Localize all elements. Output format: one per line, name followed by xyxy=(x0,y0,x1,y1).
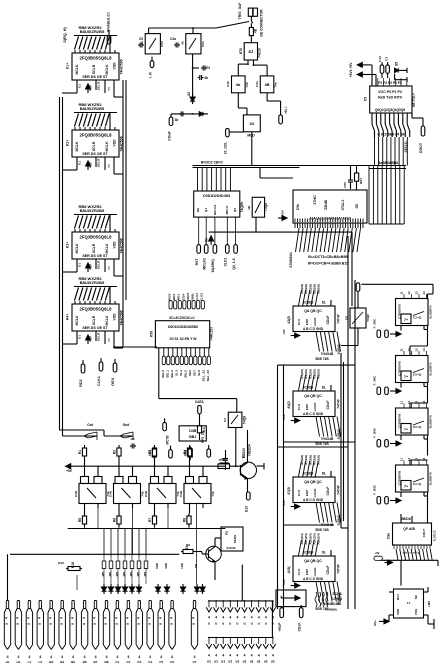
svg-text:C3: C3 xyxy=(385,57,389,61)
svg-text:X2: X2 xyxy=(249,121,255,126)
+5V arrow at counter U18 xyxy=(295,583,300,588)
input fan wires into U4 xyxy=(75,288,79,301)
svg-text:13: 13 xyxy=(415,348,419,352)
svg-text:74b: 74b xyxy=(245,82,249,87)
svg-text:4B1: 4B1 xyxy=(122,571,126,577)
svg-text:u: u xyxy=(208,622,210,626)
svg-text:C5: C5 xyxy=(364,97,368,101)
svg-text:SL8: SL8 xyxy=(197,370,201,376)
wire U8b right to connector xyxy=(266,93,268,101)
svg-text:U1: U1 xyxy=(78,263,82,267)
timer block U22 xyxy=(396,465,429,492)
connector ENABLE xyxy=(107,36,111,45)
svg-text:LOAD: LOAD xyxy=(313,488,317,498)
svg-text:4: 4 xyxy=(208,654,210,658)
+W connector and arrow xyxy=(374,556,383,560)
svg-text:I_R: I_R xyxy=(149,72,153,78)
svg-text:u: u xyxy=(59,623,63,625)
comb J2 tooth 1 xyxy=(208,601,210,608)
svg-text:u: u xyxy=(222,622,224,626)
+5V arrow under U1 xyxy=(86,84,91,89)
Q7 wire under U2 xyxy=(104,157,106,170)
clamp diode D10 xyxy=(196,584,198,587)
U23 bottom wires xyxy=(396,549,398,560)
wires above U29 xyxy=(189,459,191,477)
resistor R17 to Q2 base xyxy=(181,551,183,553)
svg-text:Q6: Q6 xyxy=(233,208,237,212)
wire top of right chain xyxy=(361,283,433,285)
comb J2 tooth 7 xyxy=(251,601,253,608)
svg-text:1DB: 1DB xyxy=(180,563,184,569)
connector pin J1-11 xyxy=(116,601,118,609)
svg-text:SER DS OE ST: SER DS OE ST xyxy=(82,75,108,79)
svg-text:SCLR: SCLR xyxy=(92,141,96,151)
+5V arrow at U24 xyxy=(384,619,389,624)
wire U8a to MLD box xyxy=(237,93,239,108)
svg-text:SCLR: SCLR xyxy=(97,81,101,90)
svg-text:u: u xyxy=(70,623,74,625)
svg-text:u: u xyxy=(192,623,196,625)
base resistor R10 on rail xyxy=(218,464,230,469)
svg-text:CLK: CLK xyxy=(297,318,301,325)
svg-text:7L5C1Z: 7L5C1Z xyxy=(433,530,437,541)
svg-text:4: 4 xyxy=(70,617,74,619)
main processor IC U12 xyxy=(293,190,367,223)
wires below U29 xyxy=(189,504,191,514)
svg-text:a b c d e f g: a b c d e f g xyxy=(402,551,419,555)
svg-text:5P5: 5P5 xyxy=(221,457,227,461)
resistor R16 horizontal xyxy=(66,568,68,570)
svg-text:A B C D GND: A B C D GND xyxy=(303,498,324,502)
svg-text:B7: B7 xyxy=(94,660,98,664)
comb J3 tooth 6 xyxy=(244,638,246,645)
svg-text:A B C D GND: A B C D GND xyxy=(303,412,324,416)
svg-text:5DB 74B: 5DB 74B xyxy=(315,442,329,446)
svg-text:C1=Q: C1=Q xyxy=(413,316,422,320)
svg-text:R2: R2 xyxy=(113,450,117,455)
comb J3 tooth 1 xyxy=(208,638,210,645)
connector oval VC2 xyxy=(207,449,211,457)
wire comb J2 stem to sensor area xyxy=(241,565,243,580)
svg-text:C4: C4 xyxy=(131,437,135,441)
svg-text:4: 4 xyxy=(27,617,31,619)
wire bus to RST and C55 xyxy=(356,166,358,174)
svg-text:CONT: CONT xyxy=(186,292,190,301)
MLD driver box xyxy=(243,115,260,132)
svg-text:QA QB QC: QA QB QC xyxy=(304,480,322,484)
wire rail to Q1 base xyxy=(230,465,241,467)
svg-text:COuF: COuF xyxy=(168,130,172,140)
svg-text:R8: R8 xyxy=(183,518,187,523)
connector pin J1-9 xyxy=(94,601,96,609)
pullup resistor R2 xyxy=(118,445,120,448)
svg-text:4: 4 xyxy=(265,616,267,620)
svg-text:13: 13 xyxy=(415,401,419,405)
svg-text:10(ARK): 10(ARK) xyxy=(211,259,215,272)
svg-text:4B1: 4B1 xyxy=(143,571,147,577)
junction wire row y114 xyxy=(171,113,208,115)
svg-text:CLK: CLK xyxy=(297,489,301,496)
wire to Gnd pin xyxy=(60,429,105,431)
junction of U14 wire and base wire xyxy=(235,465,237,467)
+5V arrow under U2 xyxy=(86,161,91,166)
small box A of U28 xyxy=(151,477,159,484)
shift register IC U2 74HC595 xyxy=(72,130,119,157)
svg-text:R3: R3 xyxy=(148,450,152,455)
svg-text:SEL2: SEL2 xyxy=(170,370,174,378)
svg-text:QA QB QC: QA QB QC xyxy=(304,394,322,398)
svg-text:5DB 74B: 5DB 74B xyxy=(315,357,329,361)
svg-text:T1: T1 xyxy=(241,455,245,459)
svg-text:LOAD: LOAD xyxy=(313,402,317,412)
svg-text:14: 14 xyxy=(422,348,426,352)
small box B of U29 xyxy=(199,477,207,484)
svg-text:3C5DB: 3C5DB xyxy=(303,301,314,305)
svg-text:4: 4 xyxy=(222,654,224,658)
svg-text:3C5DB: 3C5DB xyxy=(303,551,314,555)
connector D mid-left xyxy=(163,422,167,430)
svg-text:CLK1: CLK1 xyxy=(195,293,199,301)
svg-text:DL: DL xyxy=(322,386,326,390)
timer block U19 xyxy=(396,299,429,326)
output pin ovals below U13 xyxy=(162,356,165,365)
svg-text:U1: U1 xyxy=(78,335,82,339)
wire to bottom IC U24 xyxy=(400,560,402,585)
capacitor C at x225 xyxy=(225,456,227,459)
svg-text:MCLK: MCLK xyxy=(225,205,229,215)
wires below U26 xyxy=(84,504,86,514)
svg-text:14: 14 xyxy=(422,291,426,295)
svg-text:CLK: CLK xyxy=(297,403,301,410)
connector above D6 xyxy=(356,283,360,292)
svg-text:4: 4 xyxy=(243,616,245,620)
svg-text:6L6D8YV: 6L6D8YV xyxy=(429,414,433,428)
svg-text:COuF: COuF xyxy=(326,401,330,410)
svg-text:u1: u1 xyxy=(257,660,261,664)
svg-text:ZD48: ZD48 xyxy=(323,199,328,210)
svg-text:4B1: 4B1 xyxy=(115,571,119,577)
svg-text:S0 S1 S2 EN Y W: S0 S1 S2 EN Y W xyxy=(170,337,198,341)
svg-text:SUB(4): SUB(4) xyxy=(337,515,341,526)
bus rung at y442 xyxy=(284,441,356,443)
bus second line right segment xyxy=(369,168,406,170)
wire Q1 emitter down to connector E13 xyxy=(247,479,249,493)
top pin stubs of U20 xyxy=(403,351,405,356)
SCLR stub under U3 xyxy=(95,259,97,269)
bank resistor RB7 xyxy=(145,556,147,561)
svg-text:4: 4 xyxy=(192,617,196,619)
svg-text:R9: R9 xyxy=(186,543,190,547)
counter IC U15 xyxy=(293,306,335,332)
connector 3b COuF xyxy=(169,117,173,126)
svg-text:u: u xyxy=(104,623,108,625)
SCLR stub under U4 xyxy=(95,331,97,341)
driver flip-flop U26 xyxy=(79,484,106,504)
svg-text:BT6: BT6 xyxy=(239,48,243,54)
U10 output wires down xyxy=(198,217,200,245)
chain wire U19 to U20 xyxy=(410,345,428,347)
capacitor C55 xyxy=(350,177,352,180)
svg-text:R16: R16 xyxy=(58,561,64,565)
svg-text:MF-TVL+: MF-TVL+ xyxy=(412,93,416,107)
svg-text:12: 12 xyxy=(407,291,411,295)
svg-text:u: u xyxy=(258,622,260,626)
capacitor C5b at FF U5 input xyxy=(138,44,140,46)
svg-text:SUB(M): SUB(M) xyxy=(325,608,336,612)
svg-text:RO3: RO3 xyxy=(172,294,176,301)
clamp diode D2 xyxy=(110,584,112,587)
svg-text:CLK: CLK xyxy=(297,568,301,575)
display driver IC U23 xyxy=(393,523,432,545)
header pin ovals above U13 xyxy=(169,301,172,310)
connector Q4_16 xyxy=(234,245,238,254)
svg-text:4b: 4b xyxy=(236,82,241,87)
svg-text:DATA: DATA xyxy=(195,400,204,404)
connector RD1 xyxy=(81,364,85,373)
svg-text:u: u xyxy=(27,623,31,625)
pullup resistor R3 xyxy=(154,445,156,448)
svg-text:4: 4 xyxy=(272,654,274,658)
connector pin J1-17 xyxy=(193,601,195,609)
crystal connector TRIG xyxy=(248,8,252,16)
svg-text:A7(B: A7(B xyxy=(287,487,291,495)
resistor 41A xyxy=(197,426,201,433)
svg-text:74HC595: 74HC595 xyxy=(120,59,124,74)
svg-text:C1=Q: C1=Q xyxy=(413,373,422,377)
clamp diode D11 xyxy=(202,584,204,587)
svg-text:u: u xyxy=(169,623,173,625)
svg-text:4: 4 xyxy=(229,616,231,620)
svg-text:MCLK: MCLK xyxy=(75,141,79,152)
svg-text:VDD: VDD xyxy=(113,313,117,321)
svg-text:2FQ3B05SQ6L8: 2FQ3B05SQ6L8 xyxy=(80,234,113,239)
svg-text:SCHS: SCHS xyxy=(332,592,342,596)
connector pin J1-3 xyxy=(28,601,30,609)
wires below U3 xyxy=(76,259,78,272)
MCU IC U9 xyxy=(370,86,412,113)
svg-text:DOUT: DOUT xyxy=(419,142,423,153)
shift register IC U1 74HC595 xyxy=(72,53,119,80)
svg-text:Gnd: Gnd xyxy=(123,423,130,427)
svg-text:u1: u1 xyxy=(250,660,254,664)
svg-text:OE: OE xyxy=(196,208,200,213)
clamp diode D8 xyxy=(166,584,168,587)
svg-text:14: 14 xyxy=(422,458,426,462)
clamp diode D7 xyxy=(157,584,159,587)
svg-text:A1(B: A1(B xyxy=(287,316,291,324)
svg-text:7+: 7+ xyxy=(404,428,408,432)
svg-text:u: u xyxy=(137,623,141,625)
wire under labels of U1 xyxy=(74,35,117,37)
svg-text:4: 4 xyxy=(5,617,9,619)
svg-text:C13: C13 xyxy=(378,56,382,62)
bus rect right vertical B xyxy=(354,280,356,609)
svg-text:XTAL1: XTAL1 xyxy=(341,200,345,211)
shift register IC U3 74HC595 xyxy=(72,232,119,259)
gate U8b xyxy=(260,76,274,93)
connector 10_SCL xyxy=(226,128,230,137)
svg-text:74C10: 74C10 xyxy=(257,48,261,58)
small box B of U28 xyxy=(164,477,172,484)
wires from +5V arrows to U9 xyxy=(370,64,372,66)
svg-text:+5V: +5V xyxy=(281,209,285,216)
wire from U11 down and long run right xyxy=(255,217,257,232)
svg-text:A B C D GND: A B C D GND xyxy=(303,577,324,581)
svg-text:OE/I: OE/I xyxy=(110,378,115,386)
svg-text:VDD: VDD xyxy=(113,139,117,147)
svg-text:T3Q6: T3Q6 xyxy=(264,203,268,211)
wire Q2 emitter down xyxy=(214,562,216,581)
svg-text:R16: R16 xyxy=(71,562,75,568)
clamp diode D1 xyxy=(103,584,105,587)
U24 corner pins xyxy=(389,591,394,593)
svg-text:LM5: LM5 xyxy=(427,601,431,607)
svg-text:4: 4 xyxy=(82,617,86,619)
driver box U14 xyxy=(228,412,242,427)
svg-text:NC: NC xyxy=(414,594,418,599)
svg-text:RO1: RO1 xyxy=(177,294,181,301)
power box J4 xyxy=(276,590,306,607)
svg-text:COuF: COuF xyxy=(326,487,330,496)
wire from U6 down xyxy=(192,54,194,96)
chain wire U21 to U22 xyxy=(410,459,428,461)
svg-text:u: u xyxy=(243,622,245,626)
transistor Q2 xyxy=(206,546,222,562)
wire U14 to transistor Q1 xyxy=(235,428,237,467)
svg-text:D5: D5 xyxy=(395,62,399,66)
svg-text:Out: Out xyxy=(87,423,94,427)
svg-text:+5V/P: +5V/P xyxy=(278,622,282,632)
counter IC U18 xyxy=(293,556,335,582)
svg-text:A70808A1: A70808A1 xyxy=(289,252,293,268)
svg-text:74a: 74a xyxy=(274,82,278,87)
connector pin J1-16 xyxy=(171,601,173,609)
bottom wires of U20 xyxy=(400,383,402,388)
connector ovals at U20 xyxy=(377,387,381,395)
left arrow into U21 xyxy=(396,441,401,446)
bus rect left vertical B xyxy=(283,365,285,609)
svg-text:4B: 4B xyxy=(254,28,258,33)
svg-text:MCLK2: MCLK2 xyxy=(203,258,207,270)
logic box D4B xyxy=(179,426,206,441)
bottom wires of U22 xyxy=(400,492,402,497)
connector COuF bottom xyxy=(299,608,303,618)
svg-text:SCLR: SCLR xyxy=(97,260,101,269)
svg-text:L2: L2 xyxy=(38,660,42,664)
+5V arrow 1 for U9 xyxy=(357,63,362,68)
svg-text:CLK2: CLK2 xyxy=(200,293,204,301)
svg-text:ENP: ENP xyxy=(305,319,309,325)
svg-text:BB1: BB1 xyxy=(189,435,196,439)
wires above U28 xyxy=(154,459,156,477)
clamp diode D9 xyxy=(182,584,184,587)
svg-text:+5V: +5V xyxy=(89,84,93,91)
svg-text:5B: 5B xyxy=(194,564,198,568)
svg-text:4: 4 xyxy=(126,617,130,619)
svg-text:C5a: C5a xyxy=(201,41,205,47)
top pin stubs of U19 xyxy=(403,294,405,299)
rail end tick right xyxy=(220,462,230,464)
connector pin J1-2 xyxy=(17,601,19,609)
svg-text:Q4_1-6: Q4_1-6 xyxy=(232,258,236,269)
svg-text:C4: C4 xyxy=(148,660,152,664)
capacitor at far left mid xyxy=(130,445,132,447)
wires below U2 xyxy=(76,157,78,170)
svg-text:+5V: +5V xyxy=(89,263,93,270)
svg-text:F_3NC: F_3NC xyxy=(373,375,377,386)
svg-text:C8: C8 xyxy=(345,316,349,320)
wire tick below D5 xyxy=(395,79,407,81)
bus rect top rung xyxy=(278,364,356,366)
svg-text:VSS: VSS xyxy=(414,609,418,615)
comb J3 tooth 2 xyxy=(215,638,217,645)
resistor R5 below U26 xyxy=(84,513,86,516)
connector pin J1-15 xyxy=(160,601,162,609)
svg-text:R4: R4 xyxy=(183,450,187,455)
svg-text:4: 4 xyxy=(137,617,141,619)
connector pin J1-12 xyxy=(127,601,129,609)
svg-text:SUB(4): SUB(4) xyxy=(337,344,341,355)
svg-text:MC7B: MC7B xyxy=(166,435,170,445)
resistor 4A6 xyxy=(189,446,191,449)
svg-text:T3: T3 xyxy=(206,66,210,70)
shift register IC U4 74HC595 xyxy=(72,304,119,331)
counter IC U16 xyxy=(293,391,335,417)
svg-text:SUB(4): SUB(4) xyxy=(337,429,341,440)
+5V arrow under U10 xyxy=(209,236,214,241)
wire U22 to U23 xyxy=(427,513,429,524)
Q7 wire under U3 xyxy=(104,259,106,272)
svg-text:DL: DL xyxy=(322,301,326,305)
svg-text:B8: B8 xyxy=(105,660,109,664)
flip-flop U5 xyxy=(145,34,160,54)
svg-text:Hz: Hz xyxy=(6,660,10,664)
svg-text:SCLR: SCLR xyxy=(92,315,96,325)
svg-text:C1: C1 xyxy=(115,660,119,664)
pin stubs above U9 xyxy=(371,78,373,86)
horizontal wire under U23 xyxy=(381,559,438,561)
transistor Q1 2N2222 xyxy=(240,462,256,478)
svg-text:E13: E13 xyxy=(245,506,249,512)
small box A of U26 xyxy=(81,477,89,484)
svg-text:RO/Y: RO/Y xyxy=(168,292,172,301)
input fan above counter U16 xyxy=(298,375,301,391)
svg-text:+5V: +5V xyxy=(205,237,209,244)
wires below U27 xyxy=(118,504,120,514)
svg-text:SEL5: SEL5 xyxy=(183,370,187,378)
connector ovals at U22 xyxy=(377,497,381,505)
input fan wires into U1 xyxy=(75,37,79,50)
svg-text:4: 4 xyxy=(236,654,238,658)
mux IC U13 xyxy=(155,321,209,348)
svg-text:SE6: SE6 xyxy=(188,370,192,376)
svg-text:L1: L1 xyxy=(28,660,32,664)
svg-text:u1: u1 xyxy=(264,660,268,664)
svg-text:T1: T1 xyxy=(107,164,111,168)
svg-text:2FQ3B05SQ6L8: 2FQ3B05SQ6L8 xyxy=(80,55,113,60)
svg-text:4b: 4b xyxy=(140,41,144,45)
svg-text:QF A/B: QF A/B xyxy=(403,527,415,531)
connector H4 right xyxy=(279,115,283,124)
svg-text:C5: C5 xyxy=(159,660,163,664)
svg-text:u: u xyxy=(265,622,267,626)
bank resistor RB4 xyxy=(124,556,126,561)
svg-text:RD1: RD1 xyxy=(78,378,83,387)
flip-flop U6 xyxy=(186,34,201,54)
svg-text:2FQ3B05SQ6L8: 2FQ3B05SQ6L8 xyxy=(80,306,113,311)
svg-text:17HC: 17HC xyxy=(313,195,317,205)
clamp diode D4 xyxy=(124,584,126,587)
